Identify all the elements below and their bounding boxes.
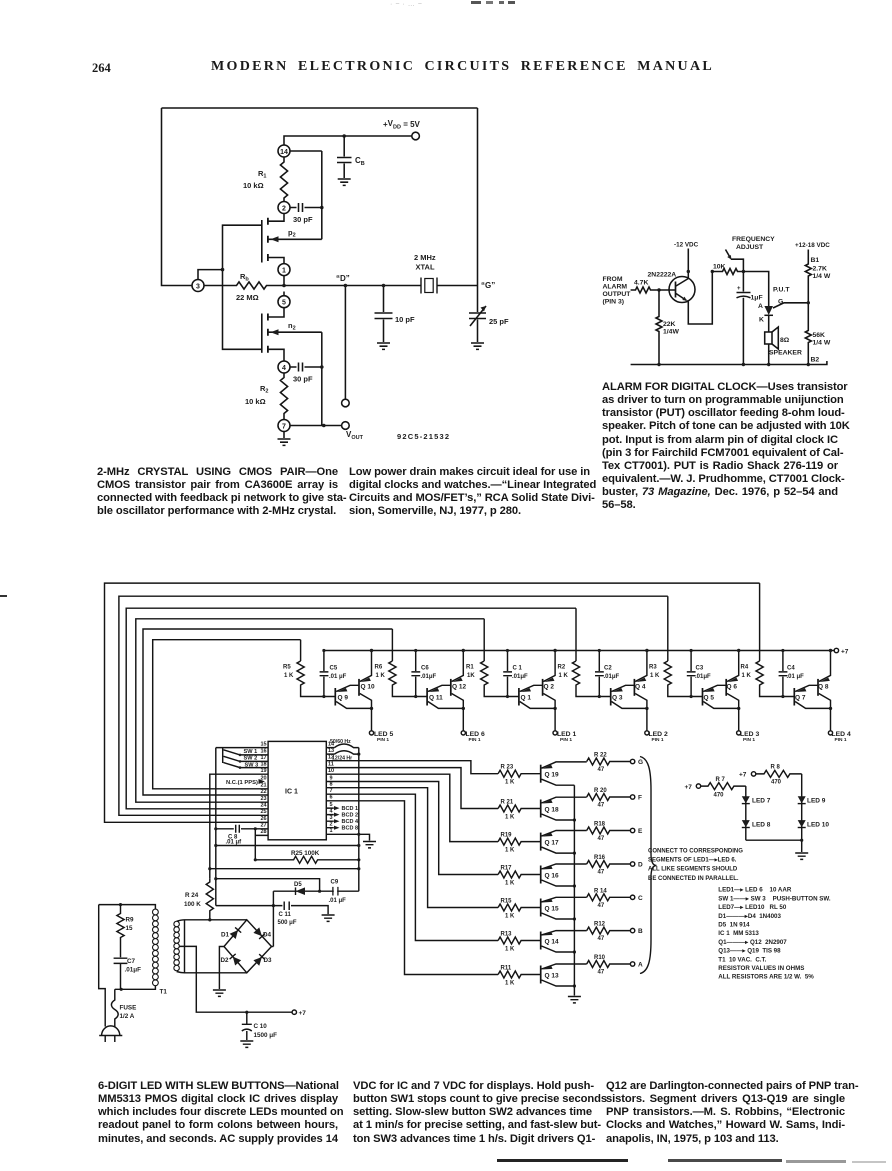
svg-text:Q 9: Q 9 xyxy=(338,695,349,702)
left margin stray dash xyxy=(0,595,7,597)
svg-text:1: 1 xyxy=(330,828,333,834)
transistor n2 channel xyxy=(267,314,269,353)
svg-text:28: 28 xyxy=(260,829,266,835)
svg-text:15: 15 xyxy=(126,925,134,932)
svg-text:D: D xyxy=(638,862,643,869)
wire pin 8 cascade to R15 xyxy=(326,788,498,908)
svg-text:Q 1: Q 1 xyxy=(521,695,532,702)
svg-text:C 11: C 11 xyxy=(279,912,292,918)
svg-text:BCD 4: BCD 4 xyxy=(342,819,359,825)
svg-text:56K: 56K xyxy=(813,332,826,339)
svg-text:470: 470 xyxy=(714,792,725,798)
svg-text:23: 23 xyxy=(260,796,266,802)
svg-text:47: 47 xyxy=(598,803,605,809)
caption: alarm for digital clock xyxy=(602,381,838,512)
svg-text:Q 18: Q 18 xyxy=(545,806,559,813)
svg-text:10 pF: 10 pF xyxy=(395,315,415,324)
svg-text:10: 10 xyxy=(328,768,334,774)
svg-text:R4: R4 xyxy=(741,665,749,671)
wire n2 drain to node 4 xyxy=(268,349,284,361)
resistor 22K xyxy=(656,290,662,365)
svg-text:IC 1 MM 5313: IC 1 MM 5313 xyxy=(718,930,759,937)
svg-text:FROM: FROM xyxy=(603,276,623,283)
svg-text:15: 15 xyxy=(260,741,266,747)
capacitor C9 xyxy=(333,887,338,896)
svg-text:D1: D1 xyxy=(221,931,230,938)
AC plug xyxy=(102,1026,120,1036)
capacitor 30pF lower xyxy=(290,363,322,372)
svg-text:1 K: 1 K xyxy=(650,673,660,679)
junction dot CB xyxy=(342,134,346,138)
svg-text:R 23: R 23 xyxy=(501,765,514,771)
wire center tap to +7 xyxy=(179,946,292,1012)
svg-text:R5: R5 xyxy=(283,665,291,671)
svg-text:LED 3: LED 3 xyxy=(740,731,759,738)
svg-text:.01 μF: .01 μF xyxy=(787,674,805,680)
bridge rectifier D1-D4 xyxy=(224,920,272,973)
node 14 xyxy=(278,145,290,157)
svg-text:2.7K: 2.7K xyxy=(813,266,827,273)
svg-text:.01μF: .01μF xyxy=(421,674,437,680)
svg-text:22 MΩ: 22 MΩ xyxy=(236,293,259,302)
transistor Q 2N2222A xyxy=(669,277,695,303)
node VDD terminal xyxy=(412,132,420,140)
svg-text:n2: n2 xyxy=(288,321,296,332)
svg-text:PIN 1: PIN 1 xyxy=(652,737,664,743)
capacitor 25pF trimmer xyxy=(469,286,486,343)
wire bus 2 (pin 25 to R3) xyxy=(119,596,668,815)
svg-text:R15: R15 xyxy=(501,898,513,904)
svg-text:R12: R12 xyxy=(594,922,606,928)
svg-text:R 20: R 20 xyxy=(594,788,607,794)
capacitor C7 xyxy=(114,958,128,989)
svg-text:1 K: 1 K xyxy=(505,980,515,986)
svg-text:F: F xyxy=(638,795,642,802)
node output upper terminal xyxy=(342,399,350,407)
svg-text:-12 VDC: -12 VDC xyxy=(674,242,699,249)
wire node2 to FET top stub xyxy=(268,214,284,222)
resistor Rb xyxy=(204,282,278,289)
svg-text:R 21: R 21 xyxy=(501,799,514,805)
svg-text:R9: R9 xyxy=(126,917,135,924)
wire feedback loop right xyxy=(477,108,479,286)
node 4 xyxy=(278,361,290,373)
parts list notes xyxy=(718,887,831,981)
capacitor 10pF xyxy=(375,286,393,343)
svg-text:LED 10: LED 10 xyxy=(807,822,829,829)
svg-text:FREQUENCY: FREQUENCY xyxy=(732,236,775,243)
svg-text:ALL LIKE SEGMENTS SHOULD: ALL LIKE SEGMENTS SHOULD xyxy=(648,867,738,873)
svg-text:R2: R2 xyxy=(260,384,268,395)
transistor n2 gate bar xyxy=(261,314,263,353)
svg-text:LED 1: LED 1 xyxy=(557,731,576,738)
svg-text:N.C.(1 PPS): N.C.(1 PPS) xyxy=(226,780,258,786)
svg-text:R18: R18 xyxy=(594,822,606,828)
wire pin 6 cascade to R11 xyxy=(326,801,498,975)
svg-text:T1 10 VAC. C.T.: T1 10 VAC. C.T. xyxy=(718,956,766,963)
svg-text:LED 2: LED 2 xyxy=(649,731,668,738)
svg-text:FUSE: FUSE xyxy=(120,1005,137,1012)
wire ground rail xyxy=(631,361,827,365)
svg-text:R11: R11 xyxy=(501,965,512,971)
svg-text:16: 16 xyxy=(260,749,266,755)
svg-text:B1: B1 xyxy=(811,257,820,264)
svg-text:.01 μf: .01 μf xyxy=(226,839,243,845)
svg-text:C 1: C 1 xyxy=(513,666,523,672)
wire pin 9 cascade to R17 xyxy=(326,782,498,875)
svg-text:C3: C3 xyxy=(696,666,704,672)
svg-text:3: 3 xyxy=(196,283,200,290)
wire bus 5 (pin 22 to R6) xyxy=(143,629,392,795)
segment driver Q19 R23 R22 output G xyxy=(498,758,635,785)
svg-text:D3: D3 xyxy=(264,957,273,964)
diode D2 xyxy=(230,954,242,966)
labels segment drivers xyxy=(501,753,644,987)
svg-text:9: 9 xyxy=(330,775,333,781)
wiper arrow xyxy=(726,250,731,258)
svg-text:Rb: Rb xyxy=(240,272,249,283)
svg-text:22K: 22K xyxy=(663,321,676,328)
capacitor CB xyxy=(337,136,352,178)
svg-text:T1: T1 xyxy=(160,989,168,996)
svg-text:1 K: 1 K xyxy=(505,780,515,786)
wire node3 up to gate box xyxy=(198,270,223,280)
junction dot 10pF xyxy=(382,284,386,288)
caption: 6-digit LED col 2 xyxy=(353,1080,592,1146)
svg-text:R13: R13 xyxy=(501,931,513,937)
svg-text:Q 6: Q 6 xyxy=(727,684,738,691)
svg-text:C2: C2 xyxy=(604,666,612,672)
jumper 50/60 Hz pin 14 xyxy=(326,744,359,748)
wire segment common collector rail xyxy=(573,785,575,995)
capacitor 30pF upper xyxy=(290,203,322,212)
pins BCD 1 2 4 8 xyxy=(342,806,359,832)
segment driver Q18 R21 R20 output F xyxy=(498,794,635,822)
svg-text:LED7—▸ LED10 RL 50: LED7—▸ LED10 RL 50 xyxy=(718,904,787,911)
svg-text:25 pF: 25 pF xyxy=(489,317,509,326)
switch SW3 xyxy=(224,763,269,768)
diode D3 xyxy=(253,954,265,966)
caption: 2-MHz crystal right column xyxy=(349,466,589,519)
svg-text:“G”: “G” xyxy=(481,281,495,290)
svg-text:P.U.T: P.U.T xyxy=(773,287,790,294)
transistor pair Q7 Q8 with resistor R4 capacitor C4 xyxy=(756,649,833,735)
svg-text:BCD 1: BCD 1 xyxy=(342,806,359,812)
svg-text:C9: C9 xyxy=(331,880,339,886)
svg-text:2N2222A: 2N2222A xyxy=(648,272,677,279)
svg-text:7: 7 xyxy=(330,788,333,794)
wire +7 display rail xyxy=(324,650,834,652)
ground LEDs xyxy=(795,853,808,859)
svg-text:BE CONNECTED IN PARALLEL.: BE CONNECTED IN PARALLEL. xyxy=(648,876,739,882)
svg-text:6: 6 xyxy=(330,795,333,801)
svg-text:R19: R19 xyxy=(501,832,513,838)
diode D4 xyxy=(253,927,265,939)
svg-text:C 10: C 10 xyxy=(254,1023,268,1030)
svg-text:C4: C4 xyxy=(787,666,795,672)
pot wiper loop xyxy=(731,259,744,271)
wire 30pF to node14 and down to p2 stub xyxy=(290,151,322,239)
ground CB xyxy=(338,179,351,185)
svg-text:R16: R16 xyxy=(594,855,606,861)
svg-text:30 pF: 30 pF xyxy=(293,375,313,384)
wire VDD rail xyxy=(284,136,412,145)
svg-text:CONNECT TO CORRESPONDING: CONNECT TO CORRESPONDING xyxy=(648,849,743,855)
wire gate box xyxy=(223,225,262,349)
segment driver Q13 R11 R10 output A xyxy=(498,961,635,988)
diode D5 xyxy=(216,879,320,892)
ground node7 xyxy=(283,432,285,439)
svg-text:LED1—▸ LED 6 10 AAR: LED1—▸ LED 6 10 AAR xyxy=(718,887,792,894)
svg-text:+7: +7 xyxy=(299,1010,307,1017)
capacitor C8 xyxy=(216,825,268,833)
svg-text:K: K xyxy=(759,317,764,324)
caption: 6-digit LED col 3 xyxy=(606,1080,845,1146)
svg-text:47: 47 xyxy=(598,936,605,942)
note connect segments xyxy=(648,849,743,882)
wire feedback loop top xyxy=(162,107,478,109)
wire primary bottom xyxy=(115,986,156,990)
junction dot D xyxy=(344,284,348,288)
svg-text:LED 5: LED 5 xyxy=(374,731,393,738)
svg-text:R2: R2 xyxy=(558,665,566,671)
svg-text:R 7: R 7 xyxy=(716,777,726,783)
svg-text:8Ω: 8Ω xyxy=(780,337,790,344)
wire primary top xyxy=(99,905,156,910)
svg-text:BCD 8: BCD 8 xyxy=(342,826,359,832)
ground 10pF xyxy=(377,343,390,349)
svg-text:18: 18 xyxy=(260,761,266,767)
svg-text:500 μF: 500 μF xyxy=(278,920,297,926)
svg-text:10K: 10K xyxy=(713,264,726,271)
svg-text:11: 11 xyxy=(328,761,334,767)
wire node7 to VOUT xyxy=(290,425,342,427)
svg-text:8: 8 xyxy=(330,782,333,788)
svg-text:+: + xyxy=(737,286,741,292)
svg-text:1/4 W: 1/4 W xyxy=(813,340,831,347)
svg-text:2 MHz: 2 MHz xyxy=(414,253,436,262)
wire p2 substrate stub xyxy=(268,238,322,240)
svg-text:“D”: “D” xyxy=(336,274,350,283)
pin numbers right 14-1 xyxy=(328,741,335,834)
wire feedback loop left xyxy=(162,108,193,286)
wire PUT cathode xyxy=(768,315,770,332)
segment driver Q15 R15 R14 output C xyxy=(498,894,635,921)
svg-text:PIN 1: PIN 1 xyxy=(835,737,847,743)
svg-text:ALARM: ALARM xyxy=(603,284,628,291)
svg-text:A: A xyxy=(758,303,763,310)
LED 9 LED 10 column xyxy=(801,774,803,852)
crystal XTAL xyxy=(421,278,437,294)
svg-text:.01μF: .01μF xyxy=(695,674,711,680)
svg-text:47: 47 xyxy=(598,870,605,876)
segment driver Q17 R19 R18 output E xyxy=(498,827,635,855)
svg-text:PIN 1: PIN 1 xyxy=(469,737,481,743)
svg-text:5: 5 xyxy=(282,300,286,307)
svg-text:SW 1——▸ SW 3 PUSH-BUTTON SW: SW 1——▸ SW 3 PUSH-BUTTON SW. xyxy=(718,895,831,902)
diode D1 xyxy=(230,927,242,939)
svg-text:1500 μF: 1500 μF xyxy=(254,1032,278,1039)
svg-text:26: 26 xyxy=(260,816,266,822)
svg-text:R 14: R 14 xyxy=(594,888,607,894)
svg-text:Q13——▸ Q19 TIS 98: Q13——▸ Q19 TIS 98 xyxy=(718,948,781,955)
svg-text:VOUT: VOUT xyxy=(346,430,364,441)
transformer T1 secondary xyxy=(174,921,180,971)
svg-text:BCD 2: BCD 2 xyxy=(342,813,359,819)
junction dot pot out xyxy=(742,270,745,273)
svg-text:1 K: 1 K xyxy=(505,847,515,853)
svg-text:47: 47 xyxy=(598,767,605,773)
svg-text:10 kΩ: 10 kΩ xyxy=(243,181,264,190)
capacitor C10 xyxy=(245,1011,248,1014)
svg-text:4: 4 xyxy=(282,365,286,372)
wire main node row D xyxy=(278,276,478,286)
labels digit drivers xyxy=(283,665,851,744)
arrowhead p2 xyxy=(271,236,279,242)
svg-text:SEGMENTS OF LED1—▸LED 6.: SEGMENTS OF LED1—▸LED 6. xyxy=(648,858,737,864)
segment driver Q16 R17 R16 output D xyxy=(498,861,635,888)
resistor R24 100K xyxy=(206,879,213,920)
svg-text:R 24: R 24 xyxy=(185,892,199,899)
svg-text:Q 13: Q 13 xyxy=(545,972,559,979)
wire p2 drain to node 1 xyxy=(268,258,284,264)
transistor pair Q9 Q10 with resistor R5 capacitor C5 xyxy=(297,649,374,735)
node 1 xyxy=(278,264,290,276)
wire speaker to rail xyxy=(768,344,770,365)
svg-text:Q 17: Q 17 xyxy=(545,839,559,846)
svg-text:R1: R1 xyxy=(466,665,474,671)
svg-text:50/60 Hz: 50/60 Hz xyxy=(330,739,351,745)
brace outputs xyxy=(640,757,657,974)
transformer T1 primary xyxy=(153,909,159,986)
svg-text:R17: R17 xyxy=(501,865,513,871)
svg-text:13: 13 xyxy=(328,748,334,754)
svg-text:R3: R3 xyxy=(649,665,657,671)
segment driver Q14 R13 R12 output B xyxy=(498,927,635,954)
svg-text:.01μF: .01μF xyxy=(512,674,528,680)
resistor 4.7K input xyxy=(631,287,659,293)
svg-text:.01 μF: .01 μF xyxy=(329,898,347,904)
svg-text:C5: C5 xyxy=(330,666,338,672)
speaker 8ohm xyxy=(765,332,772,344)
svg-text:XTAL: XTAL xyxy=(416,263,435,272)
wire node5 stubs xyxy=(268,292,284,318)
svg-text:E: E xyxy=(638,828,643,835)
svg-text:Q 2: Q 2 xyxy=(544,684,555,691)
transistor pair Q11 Q12 with resistor R6 capacitor C6 xyxy=(389,649,466,735)
wire AC line left xyxy=(99,905,106,1027)
svg-text:30 pF: 30 pF xyxy=(293,215,313,224)
svg-text:A: A xyxy=(638,962,643,969)
svg-text:27: 27 xyxy=(260,823,266,829)
svg-text:G: G xyxy=(638,759,643,766)
junction dot VOUT row xyxy=(322,424,326,428)
wire link sw-common to jumper vertical xyxy=(216,845,359,847)
wire pin 28 jog to R25 xyxy=(255,829,268,860)
ground segment rail xyxy=(568,997,581,1003)
ground C11 xyxy=(322,915,335,921)
svg-text:+7: +7 xyxy=(685,784,693,791)
wire emitter loop to pot xyxy=(687,272,712,325)
resistor R2 xyxy=(280,373,287,420)
switch SW1 xyxy=(224,750,269,755)
svg-text:Q 14: Q 14 xyxy=(545,938,559,945)
wire link pin19 vertical to jumper vertical xyxy=(210,868,359,870)
svg-text:3: 3 xyxy=(330,815,333,821)
svg-text:LED 7: LED 7 xyxy=(752,798,771,805)
wire bus 6 (pin 21 to R5) xyxy=(153,640,301,789)
svg-text:Q 12: Q 12 xyxy=(452,684,466,691)
svg-text:14: 14 xyxy=(280,149,288,156)
transistor pair Q1 Q2 with resistor R1 capacitor C1 xyxy=(481,649,558,735)
svg-text:Q 16: Q 16 xyxy=(545,872,559,879)
svg-text:R 22: R 22 xyxy=(594,753,607,759)
resistor R25 100K xyxy=(255,856,358,863)
svg-text:+7: +7 xyxy=(841,649,849,656)
svg-text:1 K: 1 K xyxy=(559,673,569,679)
wire jumper vertical xyxy=(358,748,360,892)
transistor p2 channel xyxy=(267,218,269,261)
wire pin 12 cascade to R23 xyxy=(326,761,498,774)
svg-text:+12-18 VDC: +12-18 VDC xyxy=(795,242,830,249)
svg-text:(PIN 3): (PIN 3) xyxy=(603,299,625,306)
svg-text:47: 47 xyxy=(598,970,605,976)
svg-text:LED 9: LED 9 xyxy=(807,798,826,805)
svg-text:ALL RESISTORS ARE 1/2 W. 5%: ALL RESISTORS ARE 1/2 W. 5% xyxy=(718,974,814,981)
svg-text:7: 7 xyxy=(282,423,286,430)
wire right bypass vertical xyxy=(321,332,323,425)
wire secondary top to bridge xyxy=(177,920,247,922)
svg-text:5: 5 xyxy=(330,802,333,808)
transistor pair Q3 Q4 with resistor R2 capacitor C2 xyxy=(572,649,649,735)
svg-text:1 K: 1 K xyxy=(505,913,515,919)
svg-text:SW 1: SW 1 xyxy=(244,749,258,755)
svg-text:10 kΩ: 10 kΩ xyxy=(245,397,266,406)
wire collector to -12VDC xyxy=(687,249,689,279)
svg-text:1 K: 1 K xyxy=(505,946,515,952)
svg-text:92C5-21532: 92C5-21532 xyxy=(397,432,450,441)
svg-text:1 K: 1 K xyxy=(742,673,752,679)
svg-text:2: 2 xyxy=(282,205,286,212)
running head title xyxy=(211,59,714,75)
wire pot to PUT anode xyxy=(743,272,768,307)
node VOUT terminal xyxy=(342,422,350,430)
svg-text:R10: R10 xyxy=(594,955,606,961)
svg-text:Q 5: Q 5 xyxy=(704,695,715,702)
potentiometer 10K xyxy=(712,269,743,275)
wire pin 19 down to R24 xyxy=(210,774,268,879)
wire LED bottoms xyxy=(746,839,802,841)
junction dot base xyxy=(657,288,660,291)
svg-text:24: 24 xyxy=(260,803,267,809)
switch bus xyxy=(222,748,224,763)
wire bridge right up xyxy=(272,946,274,948)
svg-text:Q1———▸ Q12 2N2907: Q1———▸ Q12 2N2907 xyxy=(718,939,787,946)
pin numbers left 15-28 xyxy=(260,741,267,835)
svg-text:Q 7: Q 7 xyxy=(795,695,806,702)
svg-text:PIN 1: PIN 1 xyxy=(377,737,389,743)
svg-text:Q 15: Q 15 xyxy=(545,905,559,912)
svg-text:19: 19 xyxy=(260,768,266,774)
wire bus 3 (pin 24 to R2) xyxy=(126,608,576,809)
svg-text:21: 21 xyxy=(260,783,266,789)
svg-text:.01μF: .01μF xyxy=(604,674,620,680)
svg-text:.01 μF: .01 μF xyxy=(329,674,347,680)
svg-text:D5 1N 914: D5 1N 914 xyxy=(718,922,750,929)
wire pin 11 cascade to R21 xyxy=(326,768,498,809)
svg-text:Q 4: Q 4 xyxy=(635,684,646,691)
svg-text:D1———▸D4 1N4003: D1———▸D4 1N4003 xyxy=(718,913,781,920)
